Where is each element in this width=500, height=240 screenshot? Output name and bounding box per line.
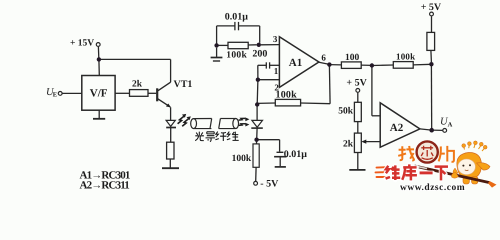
svg-text:200: 200	[252, 49, 267, 60]
svg-text:50k: 50k	[338, 106, 354, 116]
svg-text:6: 6	[321, 53, 326, 63]
svg-text:100k: 100k	[226, 51, 247, 61]
svg-text:VT1: VT1	[174, 79, 193, 90]
svg-text:3: 3	[273, 34, 278, 44]
svg-text:100k: 100k	[232, 154, 252, 164]
svg-text:www.dzsc.com: www.dzsc.com	[400, 183, 465, 193]
svg-text:0.01μ: 0.01μ	[225, 11, 249, 22]
svg-text:A1: A1	[289, 57, 302, 69]
svg-text:2k: 2k	[132, 79, 143, 89]
svg-text:+ 5V: + 5V	[346, 77, 367, 88]
svg-text:+ 15V: + 15V	[70, 39, 94, 49]
svg-text:100k: 100k	[396, 52, 415, 62]
svg-text:E: E	[53, 92, 57, 99]
svg-text:1: 1	[274, 66, 279, 76]
svg-text:A2→RC311: A2→RC311	[80, 180, 130, 192]
svg-text:100k: 100k	[276, 90, 298, 101]
svg-text:V/F: V/F	[90, 87, 108, 99]
svg-text:- 5V: - 5V	[260, 179, 279, 190]
svg-text:0.01μ: 0.01μ	[284, 149, 308, 160]
svg-text:100: 100	[345, 53, 360, 63]
svg-text:2k: 2k	[343, 140, 354, 150]
svg-text:+ 5V: + 5V	[421, 2, 442, 13]
svg-text:A: A	[448, 121, 453, 128]
svg-text:A2: A2	[390, 122, 404, 134]
